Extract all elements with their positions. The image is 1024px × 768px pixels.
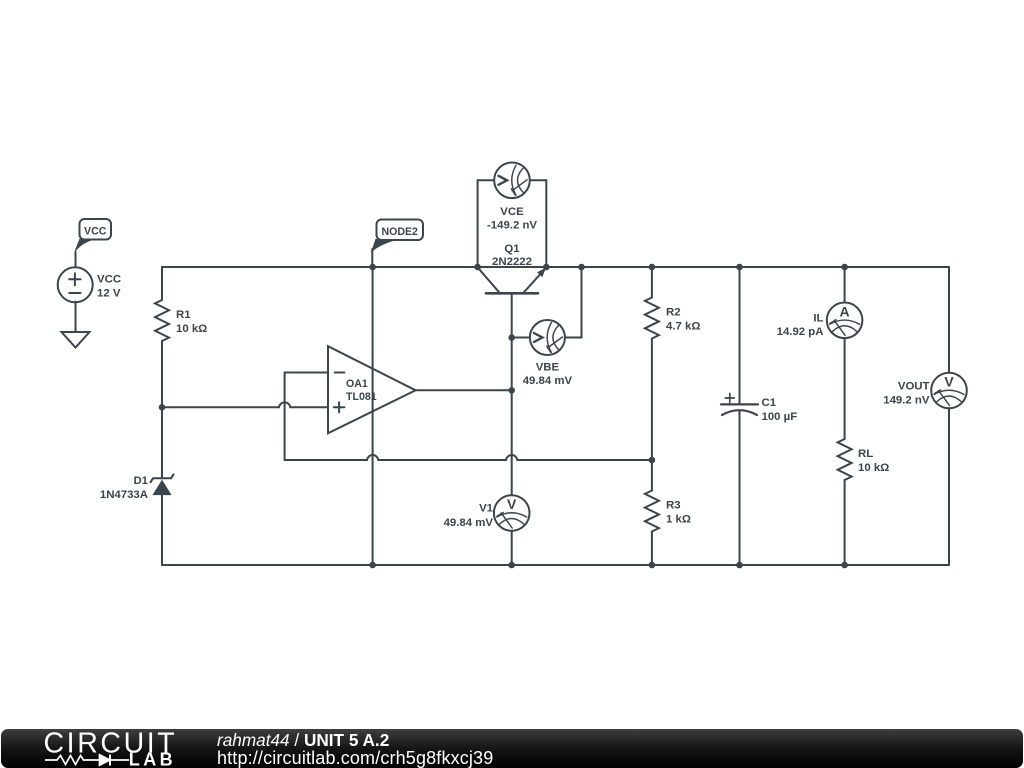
wire IL branch upper — [844, 267, 846, 303]
node dot VBE left on base — [508, 334, 515, 341]
wire R2-R3 middle — [651, 339, 653, 491]
svg-text:4.7 kΩ: 4.7 kΩ — [666, 321, 700, 333]
svg-text:49.84 mV: 49.84 mV — [523, 375, 573, 387]
logo schematic resistor-diode — [45, 755, 129, 766]
node dot Q1 collector — [474, 264, 481, 271]
svg-text:IL: IL — [813, 313, 823, 325]
wire left rail middle — [161, 341, 163, 478]
svg-text:OA1: OA1 — [346, 378, 368, 390]
meter VBE wires — [512, 267, 582, 338]
node dot opamp output on base — [508, 387, 515, 394]
node dot NODE2 bottom — [369, 562, 376, 569]
wire source to ground — [75, 302, 77, 332]
wire bottom rail — [162, 564, 949, 566]
wire C1 branch upper — [739, 267, 741, 404]
meter VCE wires — [478, 180, 547, 267]
wire R2 branch upper — [651, 267, 653, 298]
svg-text:rahmat44 / UNIT 5 A.2: rahmat44 / UNIT 5 A.2 — [217, 730, 389, 750]
node dot NODE2/top rail — [369, 264, 376, 271]
svg-text:TL081: TL081 — [346, 391, 377, 403]
meter VOUT — [931, 373, 967, 409]
resistor R1 — [155, 300, 169, 341]
ground — [62, 332, 90, 348]
capacitor C1 — [721, 403, 758, 405]
resistor RL — [838, 439, 852, 480]
meter V1 — [494, 495, 530, 531]
node dot IL top — [841, 264, 848, 271]
wire left rail upper (R1 top lead) — [161, 267, 163, 300]
node dot C1 top — [736, 264, 743, 271]
svg-text:2N2222: 2N2222 — [492, 256, 532, 268]
op-amp U1 triangle — [328, 346, 416, 433]
svg-text:RL: RL — [858, 448, 873, 460]
svg-text:R2: R2 — [666, 307, 681, 319]
resistor R2 — [645, 298, 659, 339]
wire C1 branch lower — [739, 410, 741, 565]
svg-text:R1: R1 — [176, 309, 191, 321]
svg-text:V: V — [507, 496, 517, 512]
svg-text:http://circuitlab.com/crh5g8fk: http://circuitlab.com/crh5g8fkxcj39 — [217, 748, 493, 768]
svg-text:VBE: VBE — [536, 362, 560, 374]
wire VOUT branch upper — [948, 267, 950, 373]
node dot R3 bottom — [649, 562, 656, 569]
svg-text:LAB: LAB — [129, 750, 176, 768]
op-amp plus symbol — [334, 402, 345, 412]
node dot RL bottom — [841, 562, 848, 569]
transistor Q1 — [486, 292, 538, 295]
svg-text:V: V — [944, 374, 954, 390]
svg-text:49.84 mV: 49.84 mV — [444, 517, 494, 529]
diode D1 (zener) — [151, 474, 174, 482]
wire IL to RL — [844, 338, 846, 439]
svg-text:A: A — [840, 303, 850, 319]
svg-text:Q1: Q1 — [504, 243, 520, 255]
svg-text:10 kΩ: 10 kΩ — [858, 462, 889, 474]
svg-text:NODE2: NODE2 — [381, 226, 418, 238]
svg-text:D1: D1 — [133, 475, 148, 487]
node dot R2 top — [649, 264, 656, 271]
wire VCC flag to source — [75, 252, 77, 268]
wire Q1 base vertical — [511, 293, 513, 565]
svg-text:VCC: VCC — [97, 274, 121, 286]
meter VCE — [494, 163, 530, 199]
flag VCC — [80, 219, 112, 240]
wire NODE2 vertical — [372, 267, 374, 565]
node dot R2-R3 feedback — [649, 457, 656, 464]
node dot V1 bottom — [508, 562, 515, 569]
wire top rail — [162, 266, 949, 268]
node dot Q1 emitter — [543, 264, 550, 271]
svg-text:VCC: VCC — [84, 226, 107, 238]
wire op-amp output — [416, 389, 512, 391]
svg-text:V1: V1 — [479, 503, 494, 515]
svg-text:100 µF: 100 µF — [762, 411, 798, 423]
flag NODE2 — [377, 220, 424, 241]
node dot C1 bottom — [736, 562, 743, 569]
wire to op-amp + input (hops over feedback vertical) — [162, 402, 328, 407]
wire VOUT branch lower — [948, 408, 950, 565]
voltage source VCC — [58, 267, 93, 302]
svg-text:10 kΩ: 10 kΩ — [176, 323, 207, 335]
svg-text:R3: R3 — [666, 500, 681, 512]
svg-text:VOUT: VOUT — [898, 381, 930, 393]
svg-text:-149.2 nV: -149.2 nV — [487, 219, 537, 231]
svg-text:149.2 nV: 149.2 nV — [883, 395, 930, 407]
svg-text:12 V: 12 V — [97, 288, 121, 300]
op-amp minus symbol — [335, 372, 345, 374]
svg-text:14.92 pA: 14.92 pA — [777, 326, 824, 338]
node dot VBE right — [578, 264, 585, 271]
wire feedback from - input down and right (hops at x=372.6 and x=511.7) — [285, 373, 652, 461]
svg-text:C1: C1 — [762, 397, 777, 409]
wire left rail lower — [161, 495, 163, 565]
svg-text:1N4733A: 1N4733A — [100, 489, 148, 501]
meter VBE — [530, 320, 565, 355]
svg-text:VCE: VCE — [500, 206, 524, 218]
wire R3 lower — [651, 532, 653, 566]
svg-text:1 kΩ: 1 kΩ — [666, 514, 691, 526]
meter IL — [827, 303, 863, 339]
node dot opamp + branch — [159, 404, 166, 411]
resistor R3 — [645, 491, 659, 532]
wire RL lower — [844, 480, 846, 565]
